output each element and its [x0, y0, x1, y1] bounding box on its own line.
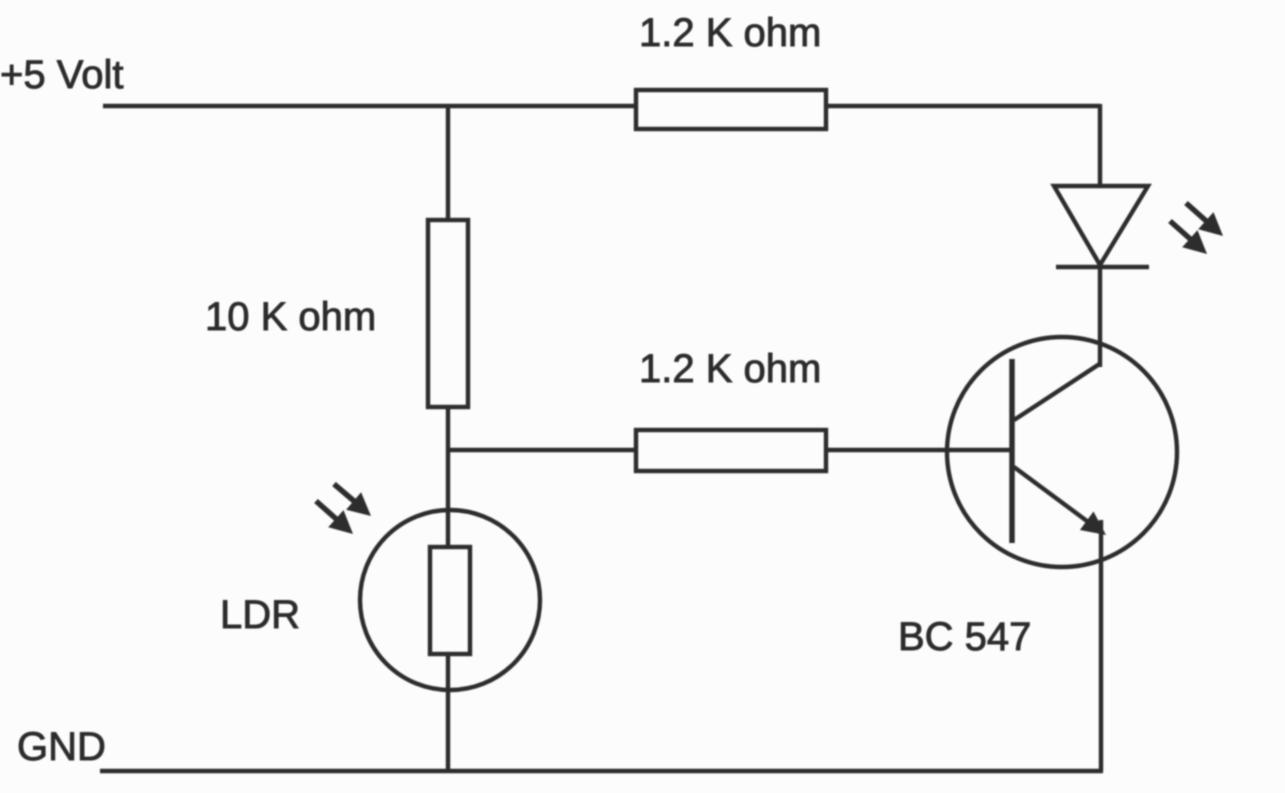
- LDR light arrow lower: [316, 501, 353, 534]
- wire from R2 bottom to LDR: [446, 405, 450, 547]
- resistor R2 10 K ohm (vertical): [428, 220, 468, 407]
- wire from top rail down to R2: [446, 104, 450, 220]
- wire LDR bottom to ground rail: [446, 654, 450, 772]
- wire emitter down to ground rail: [1099, 520, 1103, 771]
- transistor Q1 circle: [947, 337, 1177, 567]
- LDR inner resistor box: [430, 547, 470, 654]
- wire top rail left segment: [103, 104, 637, 108]
- wire from top rail down to LED anode: [1098, 104, 1102, 188]
- svg-text:BC 547: BC 547: [898, 615, 1031, 659]
- wire ground rail: [100, 769, 1103, 773]
- LED light arrow upper: [1186, 203, 1223, 236]
- svg-text:10 K ohm: 10 K ohm: [205, 295, 376, 339]
- resistor R1 1.2 K ohm (top): [636, 90, 826, 129]
- wire top rail right segment: [826, 104, 1100, 108]
- svg-text:LDR: LDR: [220, 593, 300, 637]
- wire LED cathode to collector: [1098, 267, 1102, 367]
- transistor Q1 emitter stroke: [1014, 467, 1106, 535]
- wire node junction to base resistor: [448, 448, 637, 452]
- svg-text:1.2 K ohm: 1.2 K ohm: [639, 11, 821, 55]
- LDR circle: [360, 510, 540, 690]
- svg-text:GND: GND: [17, 725, 106, 769]
- resistor R3 1.2 K ohm (middle): [636, 430, 826, 471]
- svg-text:1.2 K ohm: 1.2 K ohm: [639, 347, 821, 391]
- LDR light arrow upper: [334, 484, 371, 516]
- transistor Q1 collector stroke: [1014, 363, 1101, 420]
- wire from R3 to transistor base: [826, 448, 1011, 452]
- transistor Q1 base bar: [1009, 359, 1015, 543]
- LED D1 triangle: [1054, 186, 1148, 265]
- LED light arrow lower: [1170, 221, 1207, 254]
- svg-text:+5 Volt: +5 Volt: [0, 53, 123, 97]
- LED D1 cathode bar: [1056, 265, 1149, 269]
